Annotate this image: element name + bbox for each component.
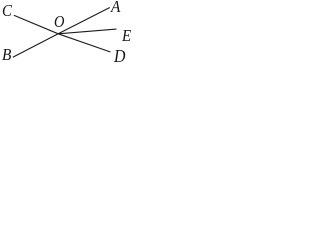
node O: [54, 13, 64, 30]
wire line C-O-D: [14, 15, 111, 52]
wire line B-O-A: [13, 8, 110, 58]
node B: [2, 46, 11, 63]
node A: [111, 0, 120, 15]
node D: [114, 47, 125, 65]
node C: [2, 2, 12, 19]
geometry figure: lines AB and CD intersect at O, ray OE: [0, 0, 131, 64]
wire ray O-E: [58, 29, 116, 34]
node E: [122, 27, 131, 44]
